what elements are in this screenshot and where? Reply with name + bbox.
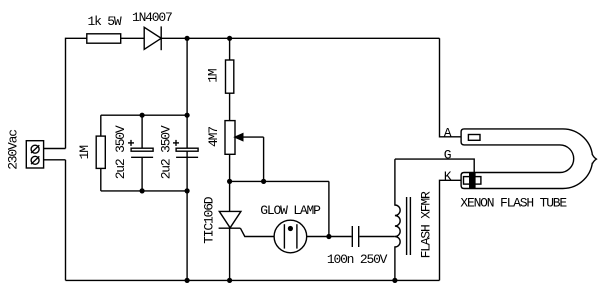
diode 1N4007 [144, 26, 161, 50]
svg-text:FLASH XFMR: FLASH XFMR [419, 191, 434, 258]
wire branch 1M/4M7/TIC106D vertical [229, 38, 231, 280]
transformer core [407, 197, 411, 255]
svg-text:1k 5W: 1k 5W [87, 14, 121, 29]
svg-text:XENON FLASH TUBE: XENON FLASH TUBE [460, 196, 567, 211]
svg-text:TIC106D: TIC106D [202, 196, 217, 244]
svg-text:G: G [444, 148, 451, 163]
wire K from tube to bottom rail [440, 180, 464, 280]
svg-text:A: A [444, 126, 452, 141]
svg-text:2u2 350V: 2u2 350V [113, 125, 128, 179]
wire wiper horizontal [230, 180, 329, 182]
wire terminal bottom stub [44, 159, 66, 161]
transformer FLASH XFMR winding [395, 159, 400, 280]
resistor 1M (bleeder) [96, 115, 105, 191]
svg-text:4M7: 4M7 [206, 127, 221, 147]
xenon tube anode electrode [468, 135, 480, 141]
xenon tube cathode electrode [464, 173, 481, 189]
xenon flash tube envelope [461, 129, 592, 189]
wire wiper down to glow lamp node [328, 181, 330, 236]
wire left rail lower [65, 160, 67, 281]
svg-text:230Vac: 230Vac [6, 130, 21, 170]
glow lamp [274, 220, 329, 253]
capacitor C2 2u2 350V [173, 140, 198, 157]
potentiometer 4M7 [225, 121, 264, 182]
resistor 1k 5W [87, 34, 121, 43]
svg-text:1N4007: 1N4007 [132, 10, 172, 25]
capacitor 100n 250V [329, 226, 395, 247]
wire terminal top stub [44, 148, 66, 150]
svg-text:K: K [444, 169, 452, 184]
thyristor TIC106D [219, 211, 275, 236]
wire bottom rail [66, 279, 440, 281]
wire main vertical node after diode [186, 38, 188, 280]
wire capacitor group top [101, 114, 187, 116]
svg-text:2u2 350V: 2u2 350V [159, 125, 174, 179]
junction node dots [140, 36, 398, 283]
terminal block 230Vac [26, 141, 43, 168]
xenon tube seal nub [589, 155, 599, 164]
resistor 1M (charge) [226, 60, 234, 93]
svg-text:1M: 1M [77, 146, 92, 160]
svg-text:1M: 1M [206, 69, 221, 83]
wire top rail [66, 38, 440, 148]
wire capacitor group bottom [101, 190, 187, 192]
wire A from top rail to tube [440, 38, 469, 137]
svg-text:GLOW LAMP: GLOW LAMP [260, 203, 321, 218]
svg-text:100n 250V: 100n 250V [327, 252, 388, 267]
capacitor C1 2u2 350V [128, 115, 153, 191]
wire G from transformer to tube [395, 159, 474, 172]
